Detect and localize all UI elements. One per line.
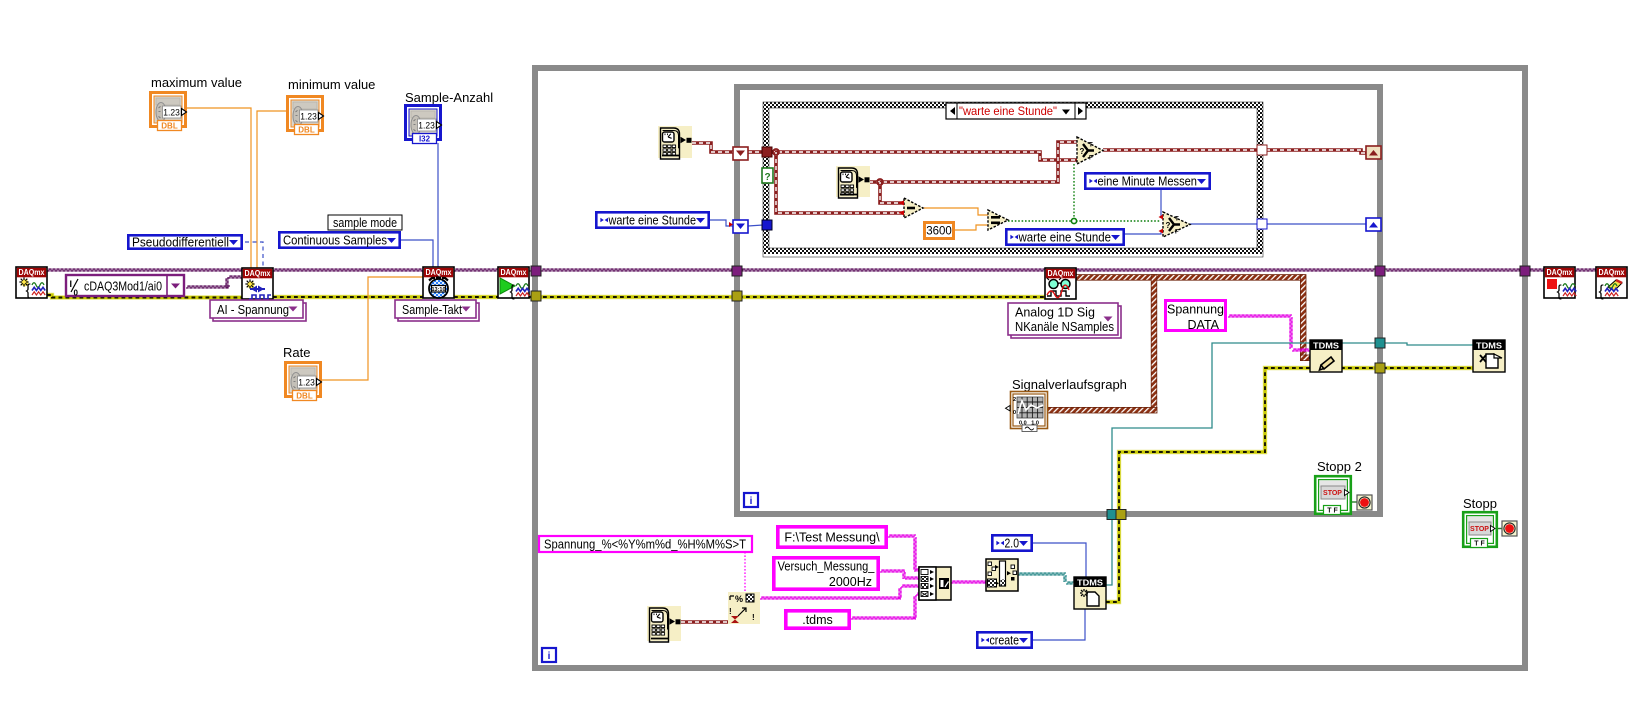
enum wire into loop [710,220,733,226]
svg-text:sample mode: sample mode [333,216,397,230]
svg-text:T: T [1175,217,1179,223]
TDMS error wire [1106,368,1310,602]
svg-text:{: { [1557,283,1562,300]
svg-text:2: 2 [1013,397,1016,403]
TDMS Open node [1074,577,1106,609]
.tdms wire [851,617,916,619]
continuous samples wire [401,240,433,267]
svg-text:1.23: 1.23 [418,120,435,131]
inner while loop frame [737,87,1380,514]
svg-text:.tdms: .tdms [802,613,833,627]
Get Date/Time In Seconds node [647,606,681,641]
equals node [988,210,1008,230]
max value wire [187,108,251,268]
svg-text:Versuch_Messung_: Versuch_Messung_ [778,560,876,574]
case tunnels [762,147,772,157]
svg-text:1.23: 1.23 [163,107,180,118]
Tick Count (ms) node 2 [836,166,870,197]
case selector terminal [762,168,773,183]
DAQmx Create Virtual Channel node [242,268,273,299]
rate wire [321,277,423,380]
svg-text:Pseudodifferentiell: Pseudodifferentiell [132,236,229,250]
selector Analog 1D Sig NKanäle NSamples [1011,306,1121,338]
svg-text:TDMS: TDMS [1077,578,1104,587]
svg-text:!: ! [729,607,732,616]
svg-text:Spannung_%<%Y%m%d_%H%M%S>T: Spannung_%<%Y%m%d_%H%M%S>T [544,538,746,552]
selector Sample-Takt [398,303,479,321]
loop tunnels [531,266,541,276]
eine Minute Messen wire [1161,190,1163,217]
subtract output wire [923,208,988,215]
svg-text:{: { [510,283,515,300]
case internal time wire (previous) [771,152,1077,160]
svg-text:I32: I32 [419,135,431,144]
svg-text:DAQmx: DAQmx [1599,268,1625,277]
svg-text:DAQmx: DAQmx [1048,269,1074,278]
svg-text:F:\Test Messung\: F:\Test Messung\ [784,531,880,545]
3600 wire [954,225,988,230]
stopp2 wire [1352,501,1357,503]
svg-text:DAQmx: DAQmx [19,268,45,277]
Spannung DATA string wire [1228,315,1310,351]
string constant F:\Test Messung\ [778,527,886,547]
create mode wire [1033,609,1085,640]
I/O constant cDAQ3Mod1/ai0 [66,275,184,298]
svg-text:2.0: 2.0 [1005,537,1020,551]
numeric control Rate [286,363,321,397]
svg-text:T F: T F [1327,508,1338,515]
DAQmx Start Task node [498,267,529,300]
svg-text:Continuous Samples: Continuous Samples [283,234,387,248]
svg-text:"warte eine Stunde": "warte eine Stunde" [959,104,1057,118]
svg-text:?: ? [764,172,770,183]
enum Pseudodifferentiell [128,235,241,248]
svg-text:STOP: STOP [1470,526,1489,533]
Tick Count (ms) node 1 [658,126,692,158]
svg-text:Sample-Takt: Sample-Takt [402,302,462,317]
svg-text:0: 0 [1013,410,1016,416]
svg-text:minimum value: minimum value [288,77,375,92]
select2 output wire [1190,223,1257,225]
shift reg to case wire [748,150,763,154]
svg-text:create: create [990,634,1020,648]
get date/time wire [681,620,728,624]
svg-text:F: F [1175,230,1179,236]
selector AI - Spannung [213,303,306,321]
svg-text:i: i [548,651,551,662]
svg-text:DAQmx: DAQmx [245,269,271,278]
svg-text:1.23: 1.23 [298,377,315,388]
boolean control Stopp 2 [1315,476,1351,514]
concat output wire [951,581,986,583]
subtract node [904,198,923,218]
enum constant warte eine Stunde (left) [596,212,708,227]
string constant Spannung_%<%Y%m%d_%H%M%S>T [539,536,752,552]
svg-text:DAQmx: DAQmx [501,268,527,277]
stopp wire [1497,528,1502,530]
svg-text:T F: T F [1474,541,1485,548]
svg-text:{: { [26,282,31,299]
boolean control Stopp [1463,512,1497,547]
string constant Versuch_Messung_2000Hz [774,558,878,589]
filename string wire (dotted) [744,552,746,593]
enum Continuous Samples [279,232,399,247]
svg-text:2000Hz: 2000Hz [829,575,872,589]
string constant .tdms [786,611,849,628]
svg-text:?: ? [1080,147,1085,156]
numeric constant 3600 [925,223,954,239]
enum shift reg to case [748,225,763,226]
svg-text:0: 0 [74,289,79,298]
svg-text:warte eine Stunde: warte eine Stunde [1018,231,1111,245]
tick count 1 wire [692,143,733,152]
svg-text:Sample-Anzahl: Sample-Anzahl [405,90,493,105]
string to path node [986,559,1018,591]
svg-text:DATA: DATA [1188,318,1220,332]
svg-text:DBL: DBL [296,392,313,401]
svg-text:I: I [70,279,73,289]
equals output boolean wire [1008,220,1160,222]
path wire (teal zigzag) [1018,573,1074,584]
svg-text:%: % [735,594,743,604]
svg-text:F: F [1089,156,1093,162]
F:\Test Messung wire [760,535,986,619]
svg-text:Analog 1D Sig: Analog 1D Sig [1015,306,1095,320]
svg-text:DBL: DBL [161,122,178,131]
svg-text:warte eine Stunde: warte eine Stunde [608,214,696,228]
DAQmx Clear Task node [1596,267,1627,300]
svg-text:T: T [1089,143,1093,149]
svg-text:3600: 3600 [926,226,952,238]
numeric control maximum value [151,93,186,127]
svg-text:Spannung: Spannung [1167,303,1224,317]
sample-anzahl wire [437,143,439,267]
svg-text:Rate: Rate [283,345,310,360]
svg-text:DAQmx: DAQmx [1547,268,1573,277]
svg-text:TDMS: TDMS [1313,341,1340,350]
enum constant create [977,632,1031,647]
svg-text:Stopp 2: Stopp 2 [1317,459,1362,474]
svg-text:TDMS: TDMS [1476,341,1503,350]
svg-text:DAQmx: DAQmx [426,268,452,277]
shift registers [733,147,748,160]
svg-text:Stopp: Stopp [1463,496,1497,511]
case selector label [946,103,1086,119]
case internal time wire (current) [869,142,1077,182]
svg-text:DBL: DBL [298,126,315,135]
case structure border [763,102,1263,257]
svg-text:{: { [1599,283,1604,300]
wire junction rings [773,149,779,155]
select node 1 [1077,137,1103,164]
waveform data wire (hatched) [1048,275,1310,413]
Versuch_Messung wire [880,570,905,572]
error wire (yellow/black dashed) [47,295,242,298]
svg-text:Signalverlaufsgraph: Signalverlaufsgraph [1012,377,1127,392]
enum constant 2.0 [992,535,1031,550]
tdms refnum wire [1106,343,1310,585]
waveform graph indicator [1006,392,1048,432]
DAQmx task wire (purple zigzag) [47,269,1596,288]
outer while loop frame [535,68,1525,668]
svg-text:i: i [750,496,753,507]
numeric control minimum value [288,97,323,131]
svg-text:?: ? [1166,221,1171,230]
pseudodifferentiell wire (dashed) [245,242,263,267]
select1 output wire [1103,148,1257,152]
svg-text:cDAQ3Mod1/ai0: cDAQ3Mod1/ai0 [84,280,162,294]
svg-text:1.23: 1.23 [300,111,317,122]
svg-text:eine Minute Messen: eine Minute Messen [1098,175,1198,189]
svg-text:STOP: STOP [1323,490,1342,497]
label sample mode [328,215,402,230]
TDMS Close node [1473,340,1505,372]
2.0 version wire [1033,543,1086,577]
min value wire [257,111,286,268]
svg-text:13:10: 13:10 [431,287,445,293]
numeric control Sample-Anzahl [406,106,441,140]
loop iteration terminals [744,493,758,507]
string constant Spannung DATA [1166,301,1226,331]
svg-text:maximum value: maximum value [151,75,242,90]
DAQmx Timing node [423,267,454,298]
DAQmx Read node [1045,268,1076,299]
concatenate strings node [919,567,951,600]
enum constant warte eine Stunde (inner) [1006,229,1123,244]
svg-text:AI - Spannung: AI - Spannung [217,302,289,317]
enum constant eine Minute Messen [1085,173,1209,188]
svg-text:NKanäle NSamples: NKanäle NSamples [1015,320,1114,334]
format date/time output wire [760,597,901,599]
TDMS Write node [1310,340,1342,372]
DAQmx Create Task node [16,267,47,299]
warte eine Stunde (inner) wire [1125,231,1163,234]
loop condition terminals [1357,495,1372,510]
svg-text:!: ! [752,613,755,622]
DAQmx Stop Task node [1544,267,1576,300]
select node 2 [1163,212,1190,237]
Format Date/Time String node [728,592,760,624]
